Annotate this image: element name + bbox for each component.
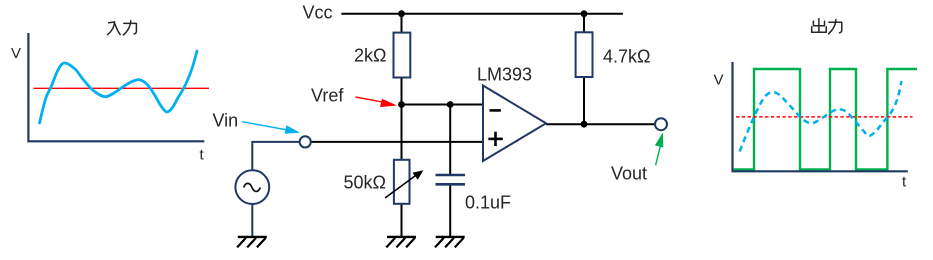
svg-text:V: V [714, 72, 724, 89]
svg-text:V: V [11, 45, 21, 62]
svg-text:4.7kΩ: 4.7kΩ [603, 47, 650, 67]
svg-text:Vout: Vout [611, 164, 647, 184]
svg-text:Vref: Vref [311, 86, 344, 106]
svg-text:Vcc: Vcc [303, 2, 333, 22]
svg-text:Vin: Vin [213, 111, 239, 131]
svg-text:50kΩ: 50kΩ [344, 172, 386, 192]
svg-text:LM393: LM393 [477, 64, 532, 84]
svg-text:0.1uF: 0.1uF [465, 193, 511, 213]
svg-text:2kΩ: 2kΩ [354, 46, 386, 66]
